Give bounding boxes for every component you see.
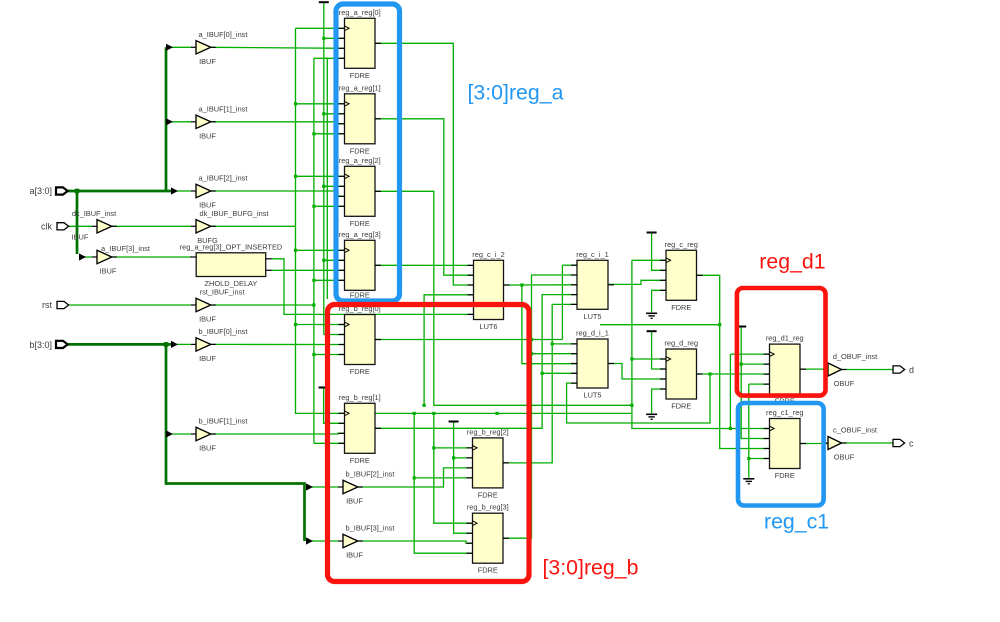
svg-text:FDRE: FDRE [350,367,370,376]
svg-text:reg_c1_reg: reg_c1_reg [766,408,803,417]
svg-text:c_OBUF_inst: c_OBUF_inst [833,426,877,435]
svg-text:rst_IBUF_inst: rst_IBUF_inst [200,288,245,297]
svg-text:reg_a_reg[3]_OPT_INSERTED: reg_a_reg[3]_OPT_INSERTED [180,242,283,251]
svg-text:a_IBUF[2]_inst: a_IBUF[2]_inst [199,174,248,183]
svg-text:reg_c1: reg_c1 [764,510,829,534]
svg-text:b_IBUF[2]_inst: b_IBUF[2]_inst [346,470,395,479]
svg-text:FDRE: FDRE [671,402,691,411]
svg-text:FDRE: FDRE [350,71,370,80]
svg-text:FDRE: FDRE [350,146,370,155]
svg-text:IBUF: IBUF [199,57,216,66]
svg-text:FDRE: FDRE [350,290,370,299]
svg-text:reg_a_reg[2]: reg_a_reg[2] [339,156,381,165]
svg-text:b[3:0]: b[3:0] [29,340,52,350]
svg-text:dk_IBUF_BUFG_inst: dk_IBUF_BUFG_inst [199,209,268,218]
svg-text:a[3:0]: a[3:0] [29,186,52,196]
svg-text:reg_c_i_2: reg_c_i_2 [472,250,504,259]
svg-text:reg_d1_reg: reg_d1_reg [766,334,804,343]
svg-text:b_IBUF[0]_inst: b_IBUF[0]_inst [199,327,248,336]
svg-text:FDRE: FDRE [350,219,370,228]
svg-text:IBUF: IBUF [199,315,216,324]
svg-text:[3:0]reg_b: [3:0]reg_b [543,556,639,580]
svg-text:reg_c_i_1: reg_c_i_1 [576,250,608,259]
svg-text:IBUF: IBUF [100,267,117,276]
svg-text:IBUF: IBUF [346,551,363,560]
svg-text:reg_b_reg[2]: reg_b_reg[2] [467,427,509,436]
svg-text:LUT6: LUT6 [479,322,497,331]
svg-text:FDRE: FDRE [350,456,370,465]
svg-text:a_IBUF[3]_inst: a_IBUF[3]_inst [101,244,150,253]
svg-text:a_IBUF[0]_inst: a_IBUF[0]_inst [199,30,248,39]
svg-text:LUT5: LUT5 [583,391,601,400]
svg-text:OBUF: OBUF [834,453,855,462]
svg-text:reg_d_i_1: reg_d_i_1 [576,329,609,338]
svg-text:reg_b_reg[1]: reg_b_reg[1] [339,393,381,402]
svg-text:clk: clk [41,222,52,232]
svg-text:FDRE: FDRE [478,566,498,575]
svg-text:b_IBUF[3]_inst: b_IBUF[3]_inst [346,524,395,533]
svg-text:reg_d_reg: reg_d_reg [664,339,698,348]
svg-text:dk_IBUF_inst: dk_IBUF_inst [72,209,116,218]
svg-text:b_IBUF[1]_inst: b_IBUF[1]_inst [199,417,248,426]
svg-text:OBUF: OBUF [834,379,855,388]
svg-text:IBUF: IBUF [72,233,89,242]
svg-text:reg_c_reg: reg_c_reg [665,240,698,249]
svg-text:FDRE: FDRE [671,303,691,312]
svg-text:FDRE: FDRE [478,490,498,499]
svg-text:a_IBUF[1]_inst: a_IBUF[1]_inst [199,104,248,113]
svg-text:d: d [909,365,914,375]
svg-text:IBUF: IBUF [199,444,216,453]
svg-text:rst: rst [42,300,52,310]
svg-text:c: c [909,438,914,448]
svg-text:FDRE: FDRE [775,471,795,480]
svg-text:LUT5: LUT5 [583,312,601,321]
svg-text:d_OBUF_inst: d_OBUF_inst [833,352,877,361]
svg-text:reg_a_reg[1]: reg_a_reg[1] [339,83,381,92]
svg-text:reg_a_reg[3]: reg_a_reg[3] [339,230,381,239]
svg-text:IBUF: IBUF [199,354,216,363]
svg-text:reg_a_reg[0]: reg_a_reg[0] [339,8,381,17]
svg-text:IBUF: IBUF [346,497,363,506]
svg-text:[3:0]reg_a: [3:0]reg_a [468,81,564,105]
svg-text:reg_d1: reg_d1 [759,250,825,274]
svg-text:IBUF: IBUF [199,131,216,140]
svg-text:reg_b_reg[3]: reg_b_reg[3] [467,503,509,512]
svg-text:BUFG: BUFG [197,236,218,245]
